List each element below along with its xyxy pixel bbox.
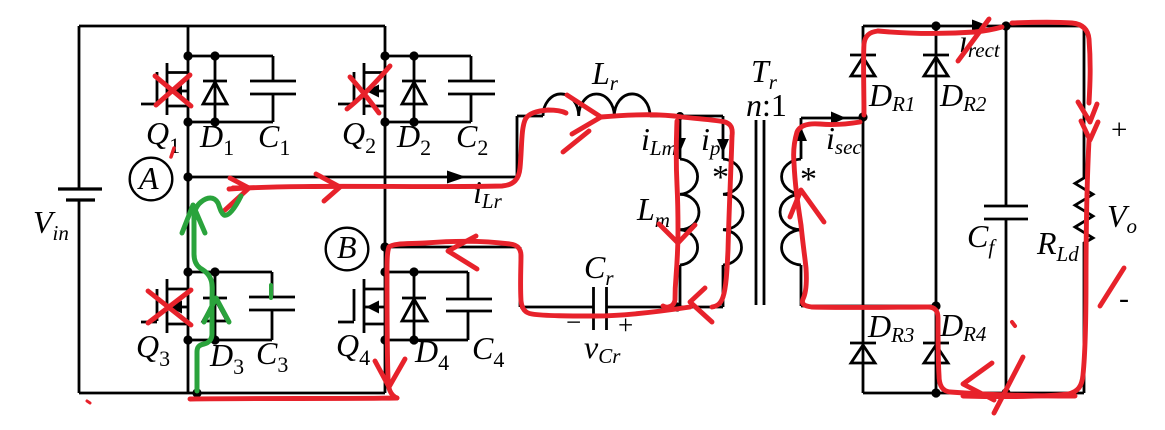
svg-text:C3: C3 (256, 335, 288, 377)
red current path tank bottom to Cr to B-wire (389, 241, 690, 316)
red diagonal dash bottom output (994, 357, 1023, 413)
red dash below Lr chevron (563, 131, 589, 152)
wire secondary bottom lead (801, 265, 936, 306)
svg-text:D1: D1 (199, 118, 234, 160)
node D3 top (210, 267, 219, 276)
transistor Q4 (338, 279, 385, 333)
red X over Q1 (155, 75, 191, 106)
capacitor C1 (250, 56, 296, 122)
red double chevron arrows right side down (1078, 102, 1098, 140)
transformer primary winding (723, 159, 743, 265)
svg-text:DR3: DR3 (867, 308, 914, 347)
red current path right side through load (963, 140, 1089, 397)
svg-text:iLr: iLr (473, 174, 503, 213)
svg-text:C4: C4 (472, 330, 504, 372)
capacitor C2 (448, 56, 495, 122)
wire Cr to primary (607, 306, 724, 309)
red arrow chevron at tank bottom (690, 288, 712, 322)
red current path secondary down (794, 122, 860, 307)
svg-text:*: * (712, 159, 729, 196)
node Lm top junction (676, 112, 684, 120)
svg-text:Q1: Q1 (146, 115, 180, 158)
wire Q4 cell bottom (385, 339, 468, 342)
node Cf top (1001, 21, 1010, 30)
node D4 top (409, 267, 418, 276)
node B junction (380, 242, 389, 251)
diode D4 (402, 272, 427, 340)
wire left rail upper (Vin plus) (78, 26, 81, 189)
green arrow chevron through D3 (204, 298, 229, 322)
capacitor Cf (984, 26, 1028, 393)
red tick below Q1 label (171, 148, 174, 157)
arrow isec right (831, 112, 846, 125)
arrow isec up (795, 127, 807, 141)
wire Q3 cell bottom (188, 339, 272, 342)
node D2 bottom (409, 117, 418, 126)
node A circle (130, 158, 173, 201)
diode D3 (203, 272, 227, 340)
svg-text:D3: D3 (209, 337, 244, 379)
transistor Q1 (141, 63, 188, 115)
wire primary bottom lead (722, 265, 725, 307)
node Lm bottom junction (672, 302, 681, 311)
node Q4 source (380, 335, 389, 344)
svg-text:A: A (137, 160, 159, 196)
red current path A-wire to Lr (229, 110, 566, 189)
resistor RLd (1075, 26, 1093, 393)
node Q2 source (380, 117, 389, 126)
wire Q3 cell top (188, 271, 272, 274)
wire Q1 cell bottom (188, 121, 273, 124)
red current path along output top rail (878, 27, 1002, 33)
red X over Q2 (347, 66, 390, 113)
red arrow chevron on B-wire (448, 236, 477, 269)
wire Lm bottom lead (679, 265, 682, 307)
red arrow V on Lm branch (659, 224, 695, 243)
svg-text:C2: C2 (456, 118, 488, 160)
red speck bottom left (87, 401, 90, 403)
svg-text:+: + (1111, 114, 1127, 146)
wire rectifier right leg (935, 26, 938, 393)
wire left bridge leg (Q1/Q3) (187, 26, 190, 393)
svg-text:C1: C1 (258, 118, 290, 160)
node Q3 source (183, 335, 192, 344)
transformer secondary winding (780, 159, 801, 265)
node D1 top (210, 51, 219, 60)
svg-text:ip: ip (701, 121, 720, 160)
node A junction (183, 172, 192, 181)
inductor Lm (680, 159, 699, 265)
wire Q2 cell top (385, 55, 471, 58)
node Cf bottom (1001, 388, 1010, 397)
red current path down primary (712, 136, 732, 307)
node D2 top (409, 51, 418, 60)
red diagonal dash through irect (958, 19, 989, 61)
svg-text:DR1: DR1 (868, 77, 915, 116)
svg-text:Vo: Vo (1107, 198, 1137, 238)
wire node B to Cr (385, 247, 593, 307)
red arrow chevron bottom output rail (963, 363, 994, 400)
svg-text:Lm: Lm (636, 191, 670, 232)
svg-text:RLd: RLd (1036, 225, 1079, 266)
svg-text:Lr: Lr (591, 55, 619, 95)
wire primary top lead (722, 116, 725, 159)
red current path down Lm branch (663, 121, 678, 307)
wire node A to tank (188, 116, 517, 177)
capacitor C3 (249, 272, 295, 340)
red arrow chevron up on secondary (790, 190, 824, 222)
transistor Q3 (141, 279, 188, 333)
red current path bottom rail leftward (190, 398, 397, 399)
wire left rail lower (Vin minus) (78, 200, 81, 393)
battery Vin plates (58, 189, 102, 200)
svg-text:DR4: DR4 (939, 307, 987, 346)
red chevron dash near minus (1100, 268, 1124, 306)
svg-text:Vin: Vin (33, 204, 69, 245)
node secondary top junction (858, 112, 867, 121)
red current path up DR1 leg (864, 31, 878, 115)
node rectifier top rail (931, 21, 940, 30)
wire output bottom rail (863, 392, 1084, 395)
arrow iLm (674, 138, 686, 152)
node D4 bottom (409, 335, 418, 344)
node D3 bottom (210, 335, 219, 344)
wire Q2 cell bottom (385, 121, 471, 124)
red arrow V at Q4 leg bottom (375, 359, 405, 387)
diode D1 (203, 56, 227, 122)
red speck near DR4 (1012, 322, 1015, 326)
capacitor C4 (446, 272, 492, 340)
wire output top rail (863, 25, 1084, 28)
transistor Q2 (338, 63, 385, 115)
svg-text:n:1: n:1 (746, 87, 787, 123)
red X over Q3 (148, 290, 191, 325)
wire secondary top lead (801, 118, 863, 159)
transformer core (756, 120, 764, 305)
diode DR1 (850, 55, 876, 76)
svg-text:Cr: Cr (584, 249, 614, 290)
red arrow chevron mid A-wire (316, 174, 340, 201)
wire Q4 cell top (385, 271, 468, 274)
red current path Lr to primary top (601, 115, 732, 136)
arrow irect (972, 20, 989, 33)
red current path bottom output rail (950, 392, 1075, 396)
wire Lm top lead (679, 116, 682, 159)
wire bottom rail input bridge (79, 392, 385, 395)
svg-text:Cf: Cf (967, 218, 997, 259)
arrow iLr (447, 171, 466, 184)
red current path secondary bottom to DR4 (812, 307, 950, 392)
node secondary bottom junction (931, 301, 940, 310)
node bottom rail junction (192, 388, 201, 397)
svg-text:−: − (566, 307, 581, 337)
diode DR3 (850, 343, 876, 363)
red arrow chevron on Lr (567, 95, 601, 134)
svg-text:Q2: Q2 (342, 115, 376, 158)
node rectifier bottom rail (931, 388, 940, 397)
node Q1 drain (183, 51, 192, 60)
capacitor Cr (594, 287, 607, 330)
svg-text:Q4: Q4 (336, 327, 370, 370)
green arrow chevron at node A (182, 205, 205, 233)
green current path up through D3 to node A (194, 196, 241, 391)
wire rectifier left leg (862, 26, 865, 393)
wire tank top left (517, 115, 543, 118)
node B circle (326, 228, 369, 271)
wire right bridge leg (Q2/Q4) (384, 26, 387, 393)
node Q2 drain (380, 51, 389, 60)
svg-text:B: B (337, 229, 357, 265)
diode D2 (402, 56, 426, 122)
svg-text:vCr: vCr (584, 329, 621, 368)
svg-text:D2: D2 (396, 118, 431, 160)
green tick above C3 (269, 285, 273, 298)
node Q3 drain (183, 267, 192, 276)
svg-text:Q3: Q3 (136, 328, 170, 371)
wire tank top right (650, 115, 723, 118)
node Q4 drain (380, 267, 389, 276)
red current path top rail corner down right side (1012, 22, 1090, 103)
wire top rail input bridge (79, 25, 385, 28)
diode DR4 (923, 343, 949, 363)
arrow ip (717, 139, 729, 153)
inductor Lr (543, 94, 650, 116)
node D1 bottom (210, 117, 219, 126)
red current path A-wire start arrow (225, 178, 249, 210)
svg-text:-: - (1119, 282, 1129, 315)
wire Q1 cell top (188, 55, 273, 58)
svg-text:DR2: DR2 (939, 77, 987, 116)
svg-text:iLm: iLm (641, 121, 677, 160)
red current path down Q4 leg (387, 247, 397, 398)
diode DR2 (923, 55, 949, 76)
node Q1 source (183, 117, 192, 126)
